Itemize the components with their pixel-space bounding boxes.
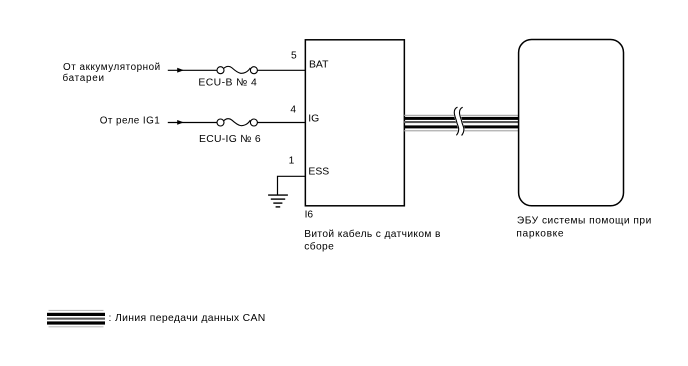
svg-text:4: 4 — [290, 104, 296, 115]
fuse label ECU-B № 4 — [198, 78, 257, 89]
svg-text:Витой кабель с датчиком в: Витой кабель с датчиком в — [304, 228, 440, 240]
svg-text:1: 1 — [289, 155, 295, 166]
node label: От реле IG1 — [100, 116, 160, 127]
node label: От аккумуляторной батареи — [63, 62, 161, 84]
svg-text:ESS: ESS — [308, 167, 329, 178]
pin label ESS — [308, 167, 329, 178]
fuse label ECU-IG № 6 — [199, 134, 261, 145]
svg-text:От реле IG1: От реле IG1 — [100, 116, 160, 127]
connector designator I6 — [305, 209, 314, 220]
svg-text:IG: IG — [308, 114, 319, 125]
svg-text:ЭБУ системы помощи при: ЭБУ системы помощи при — [517, 216, 651, 227]
pin label BAT — [309, 59, 329, 70]
arrow (IG1 feed direction) — [177, 120, 184, 125]
ground — [268, 195, 288, 207]
pin number 4 — [290, 104, 296, 115]
CAN bus (five parallel lines) — [404, 115, 519, 132]
pin label IG — [308, 114, 319, 125]
svg-text:ECU-B № 4: ECU-B № 4 — [198, 78, 257, 89]
pin number 1 — [289, 155, 295, 166]
fuse ECU-B No.4 — [217, 66, 257, 73]
svg-text:батареи: батареи — [63, 73, 105, 84]
legend CAN bus symbol — [47, 310, 105, 327]
wire fuse to BAT pin — [257, 69, 305, 71]
wire from battery label to fuse — [168, 69, 217, 71]
ECU label: ЭБУ системы помощи при парковке — [516, 216, 651, 240]
component label: Витой кабель с датчиком в сборе — [304, 228, 440, 252]
legend text: Линия передачи данных CAN — [109, 313, 266, 324]
pin number 5 — [291, 51, 297, 62]
arrow (battery feed direction) — [177, 68, 184, 73]
fuse ECU-IG No.6 — [217, 119, 257, 126]
svg-text:BAT: BAT — [309, 59, 329, 70]
connector I6 box (twisted cable with sensor assembly) — [305, 40, 404, 206]
svg-text:парковке: парковке — [516, 229, 563, 240]
bus break symbol — [454, 107, 464, 135]
svg-text:сборе: сборе — [304, 241, 334, 253]
svg-text:ECU-IG № 6: ECU-IG № 6 — [199, 134, 261, 145]
wire ESS pin to ground — [278, 176, 306, 194]
wire fuse to IG pin — [257, 122, 305, 124]
svg-text:5: 5 — [291, 51, 297, 62]
svg-text:I6: I6 — [305, 209, 314, 220]
ECU rounded box (parking assist ECU) — [519, 40, 624, 206]
svg-text:: Линия передачи данных CAN: : Линия передачи данных CAN — [109, 313, 266, 324]
wire from IG1 relay label to fuse — [168, 122, 217, 124]
svg-text:От аккумуляторной: От аккумуляторной — [63, 62, 160, 73]
